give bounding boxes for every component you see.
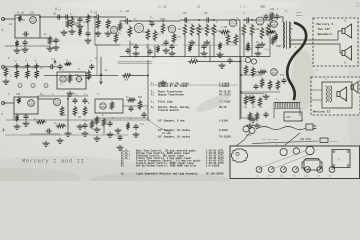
svg-text:100K: 100K (96, 21, 102, 24)
ground (47, 46, 53, 51)
tube V10 (271, 69, 278, 76)
capacitor C27 (142, 112, 146, 118)
resistor R25 (266, 24, 270, 36)
output transformer chassis (302, 159, 322, 171)
wire (5, 45, 50, 47)
svg-text:250K: 250K (193, 28, 199, 31)
ground (219, 63, 225, 68)
template circle (236, 152, 239, 159)
svg-text:OUTPUT: OUTPUT (330, 140, 339, 143)
wire (241, 117, 250, 119)
svg-text:Pilot Lamp: Pilot Lamp (158, 101, 173, 104)
wire (123, 105, 148, 107)
resistor R63 (156, 45, 160, 53)
wire (130, 20, 150, 22)
svg-text:250K: 250K (20, 67, 26, 70)
svg-text:V₄ₐ: V₄ₐ (55, 8, 61, 12)
control knob BAS5 (304, 167, 310, 178)
LDR box (284, 112, 302, 121)
svg-text:S-1394: S-1394 (219, 120, 228, 123)
resistor R15 (190, 24, 194, 36)
parts list R rows (121, 149, 224, 175)
plug (306, 124, 316, 130)
wire (132, 75, 148, 77)
wire (299, 108, 301, 116)
resistor R41 (110, 101, 114, 110)
svg-text:6BQ5: 6BQ5 (260, 6, 266, 9)
resistor R14 (178, 24, 187, 36)
svg-text:.02: .02 (8, 23, 13, 26)
ground (77, 24, 83, 29)
label 3.3M (221, 26, 228, 29)
svg-text:10" Speaker, 15 inches: 10" Speaker, 15 inches (158, 136, 191, 139)
ground (22, 47, 28, 52)
tube V3 (229, 17, 239, 27)
capacitor C20 (58, 64, 62, 70)
capacitor C22 (228, 58, 232, 64)
svg-text:SW-78: SW-78 (219, 106, 227, 109)
ground (263, 94, 269, 99)
resistor R22 (242, 24, 246, 36)
capacitor C28 (83, 123, 87, 129)
svg-text:100K: 100K (126, 31, 132, 34)
wire (180, 19, 183, 21)
capacitor C30 (46, 129, 52, 133)
capacitor C14 (245, 18, 251, 22)
svg-text:R₁₄: R₁₄ (186, 21, 191, 24)
tube socket V2 top (280, 145, 287, 156)
long vertical wire (147, 60, 149, 120)
svg-text:3.3M: 3.3M (221, 26, 228, 29)
wire (87, 24, 89, 30)
resistor R40 (83, 106, 87, 116)
wire (311, 99, 322, 101)
svg-text:22K: 22K (30, 12, 35, 15)
power transformer chassis (332, 150, 350, 168)
enclosure Mercury II (311, 77, 360, 115)
tube socket V1 top (293, 148, 299, 154)
svg-text:R₁₉: R₁₉ (224, 34, 229, 37)
capacitor C19 (49, 65, 55, 69)
resistor R31 (68, 74, 72, 83)
capacitor C17 (25, 64, 29, 70)
label C12 (182, 12, 187, 15)
node B (71, 16, 73, 18)
wire (150, 20, 180, 22)
svg-text:C₁₀: C₁₀ (146, 46, 151, 49)
resistor R64 (188, 44, 192, 52)
label 6BQ5 (276, 143, 278, 146)
long vertical (240, 57, 242, 118)
capacitor C6 (93, 11, 101, 19)
wire (120, 119, 150, 121)
supply arrow (51, 58, 56, 65)
ground (94, 136, 100, 141)
wire pair (118, 61, 152, 63)
resistor R70 (244, 95, 248, 105)
wire (269, 12, 271, 56)
capacitor C15 (246, 46, 250, 52)
ground (85, 38, 91, 43)
oscillator box (57, 72, 86, 89)
resistor R12 (161, 23, 165, 34)
wire (95, 44, 120, 46)
svg-text:1500: 1500 (230, 41, 236, 44)
wire (241, 74, 262, 76)
ground (169, 51, 175, 56)
ground (77, 124, 83, 129)
resistor R21 (234, 34, 238, 45)
svg-text:165: 165 (51, 58, 56, 61)
svg-text:270K: 270K (60, 114, 66, 117)
node A (39, 16, 41, 18)
harness wire2 (275, 155, 308, 168)
corner mark (356, 2, 359, 6)
svg-text:C₂₅: C₂₅ (84, 93, 89, 96)
resistor R17 (205, 24, 209, 36)
svg-text:GRN WIRE: GRN WIRE (300, 138, 312, 141)
capacitor C12 (183, 18, 189, 22)
svg-text:4.7K: 4.7K (191, 57, 197, 60)
svg-text:V₁: V₁ (316, 148, 319, 151)
ground (163, 48, 169, 53)
svg-text:TA-13155: TA-13155 (219, 136, 231, 139)
resistor R37 (15, 114, 19, 122)
svg-text:R₁₂: R₁₂ (167, 26, 171, 29)
label spkr cable (296, 11, 303, 17)
resistor R24 (260, 27, 264, 39)
label C7 (120, 10, 130, 13)
capacitor C1 (23, 32, 29, 36)
svg-text:Tremolo Switch: Tremolo Switch (158, 109, 179, 112)
resistor R27 (15, 70, 19, 79)
resistor R2 (15, 40, 19, 47)
resistor R51 (258, 70, 267, 74)
svg-text:.02: .02 (203, 12, 208, 15)
svg-text:V1B: V1B (16, 93, 21, 96)
diag wire (285, 133, 300, 145)
ground (259, 42, 265, 47)
tube V8 (53, 98, 60, 105)
ground (43, 141, 49, 146)
wire (273, 108, 275, 118)
wire pair2 (118, 62, 152, 64)
svg-text:1.5K: 1.5K (106, 21, 112, 24)
wire (13, 114, 15, 120)
capacitor C18 (35, 64, 39, 70)
control knob VOL3 (280, 167, 286, 178)
wire (311, 89, 322, 91)
capacitor C31 (118, 135, 122, 141)
tube V9 (100, 103, 107, 109)
can capacitor C32 (245, 57, 256, 64)
svg-text:C₁₅: C₁₅ (265, 48, 270, 51)
resistor R52 (260, 78, 264, 88)
wire (6, 102, 14, 104)
node 1 (18, 84, 22, 88)
wire (198, 36, 200, 57)
resistor R50 (251, 67, 255, 77)
inner box (322, 82, 352, 108)
vertical wire (67, 95, 69, 130)
svg-text:C-13059: C-13059 (219, 85, 230, 88)
svg-text:220K: 220K (254, 28, 260, 31)
capacitor C46 (264, 14, 268, 20)
speaker cable (287, 23, 306, 99)
capacitor C16 (15, 64, 19, 70)
control knob VOL1 (256, 167, 262, 178)
svg-text:1-9-13156: 1-9-13156 (206, 165, 220, 168)
svg-text:117V: 117V (246, 134, 252, 137)
svg-text:.05: .05 (93, 11, 98, 14)
wire (213, 36, 215, 57)
ground (105, 31, 111, 36)
ground (247, 123, 253, 128)
svg-text:R₄₅: R₄₅ (34, 118, 39, 121)
wire (211, 19, 214, 21)
resistor R56 (255, 112, 259, 121)
ground (14, 124, 20, 129)
harness wire (262, 151, 305, 167)
wire (280, 17, 283, 22)
svg-text:.02: .02 (196, 6, 201, 9)
wire bus (6, 66, 44, 68)
capacitor C26 (129, 106, 133, 112)
wire (313, 44, 342, 53)
long wire (239, 20, 241, 120)
ground (115, 128, 121, 133)
enclosure Mercury I (313, 18, 358, 66)
svg-text:Vₓ: Vₓ (237, 158, 239, 160)
capacitor C4 (54, 38, 58, 44)
ground (61, 30, 67, 35)
svg-text:R₄₂: R₄₂ (126, 96, 130, 99)
fuse F1 (243, 126, 255, 134)
resistor R45 (36, 120, 46, 124)
svg-text:A-1619: A-1619 (219, 129, 228, 132)
resistor R44 (95, 116, 99, 125)
speaker SP2 (342, 46, 352, 65)
resistor R35 (188, 57, 199, 63)
resistor R1 (18, 15, 25, 22)
capacitor C43 (170, 44, 174, 50)
resistor R54 (276, 80, 280, 90)
ext speaker line (252, 141, 318, 144)
resistor R61 (78, 28, 82, 36)
wire (95, 117, 148, 119)
resistor R33 (87, 70, 91, 80)
tube V7 (16, 99, 35, 106)
label switch (300, 119, 303, 122)
resistor R8 (114, 33, 118, 43)
tube V4 (256, 17, 264, 25)
svg-text:1500: 1500 (143, 31, 149, 34)
wire (103, 127, 105, 134)
svg-text:2: 2 (1, 113, 3, 116)
svg-text:Mercury I and II: Mercury I and II (22, 159, 85, 165)
resistor R3 (48, 36, 57, 45)
ground (217, 52, 223, 57)
resistor R26 (4, 67, 8, 77)
svg-text:R₃₆: R₃₆ (40, 93, 45, 96)
svg-text:C .1: C .1 (240, 6, 246, 9)
wire (94, 17, 96, 45)
ground (107, 132, 113, 137)
svg-text:CABLE: CABLE (296, 14, 303, 17)
svg-text:R₃₅: R₃₅ (152, 56, 157, 59)
resistor R5 (86, 14, 90, 24)
resistor R19 (220, 30, 230, 34)
top labels row (158, 6, 289, 14)
tube V1A (17, 17, 37, 24)
svg-text:C₃₂: C₃₂ (243, 60, 247, 63)
resistor R30 (64, 62, 72, 66)
resistor R7 (106, 19, 110, 29)
svg-text:10K: 10K (124, 79, 129, 82)
wire (211, 19, 240, 21)
resistor R34 (122, 74, 132, 82)
capacitor C8 (150, 21, 154, 27)
svg-text:R₄₆: R₄₆ (54, 122, 59, 125)
svg-text:T₁: T₁ (338, 158, 342, 161)
resistor R16 (197, 24, 201, 36)
wire (55, 66, 57, 68)
ground (23, 121, 29, 126)
svg-text:C₇ .02: C₇ .02 (120, 10, 130, 13)
wire (44, 66, 49, 68)
resistor R9 (128, 26, 132, 37)
svg-text:EXT SPK WIRE: EXT SPK WIRE (262, 138, 278, 141)
parts list header rows (151, 83, 231, 139)
svg-text:Light Dependent Resistor and L: Light Dependent Resistor and Lamp Assemb… (136, 173, 198, 176)
capacitor C10 (126, 48, 130, 54)
capacitor C29 (108, 121, 112, 127)
resistor R48 (102, 118, 106, 127)
svg-text:PC-100-89306: PC-100-89306 (206, 173, 224, 176)
resistor R67 (274, 33, 278, 41)
resistor R49 (244, 65, 248, 75)
resistor R20 (226, 34, 230, 45)
label C14 (242, 12, 245, 15)
title Mercury I and II (22, 159, 85, 165)
ground (53, 45, 59, 50)
power cord (258, 127, 306, 130)
svg-text:.02: .02 (52, 13, 57, 16)
resistor R28 (26, 70, 30, 79)
wire (86, 77, 91, 79)
wire (313, 31, 342, 40)
sub box (95, 99, 123, 113)
speaker SP4 (351, 82, 358, 94)
resistor R60 (66, 19, 70, 28)
svg-text:Output Transformer: Output Transformer (158, 94, 185, 97)
tube V2B (168, 25, 176, 33)
ground (250, 117, 256, 122)
label C1 C2 C3 (14, 60, 38, 63)
wire (243, 36, 245, 57)
label V5 (95, 57, 98, 60)
resistor R6 (96, 19, 100, 29)
wire (40, 37, 50, 39)
ground (201, 51, 207, 56)
ground (160, 80, 166, 85)
capacitor C45 (256, 44, 260, 50)
wire (96, 45, 98, 76)
wire (44, 75, 118, 77)
svg-text:470K: 470K (216, 30, 222, 33)
svg-text:5Y3: 5Y3 (280, 74, 285, 77)
wire (60, 16, 64, 18)
resistor R39 (73, 106, 77, 116)
speaker SP3 (337, 87, 347, 101)
capacitor C33 (254, 84, 258, 90)
wire (154, 45, 156, 57)
wire (209, 45, 211, 62)
stage box V1A (15, 15, 40, 38)
capacitor C21 (90, 64, 94, 70)
power transformer T1 (274, 102, 300, 108)
resistor R36 (17, 97, 21, 104)
svg-text:1: 1 (2, 28, 4, 32)
output stage parts (268, 12, 279, 45)
svg-text:47K: 47K (209, 28, 214, 31)
ground (3, 79, 9, 84)
capacitor C35 (264, 112, 268, 118)
ground (95, 31, 101, 36)
wire (251, 36, 253, 57)
capacitor C11 (148, 49, 152, 55)
svg-text:Speaker-8" PM, #1698: Speaker-8" PM, #1698 (158, 85, 188, 88)
svg-text:R₂₂: R₂₂ (246, 22, 250, 25)
wire (6, 119, 120, 121)
capacitor C44 (202, 44, 206, 50)
wire (150, 84, 238, 86)
svg-text:2.7K: 2.7K (175, 36, 181, 39)
wire (6, 18, 15, 20)
wire (236, 132, 250, 146)
ground (14, 48, 20, 53)
svg-text:R₁₁: R₁₁ (157, 33, 162, 36)
capacitor C40 (64, 15, 70, 19)
wire (241, 93, 264, 95)
resistor R65 (218, 42, 222, 50)
svg-text:R₃₀: R₃₀ (66, 60, 71, 63)
lower bus wire (5, 134, 128, 136)
svg-text:Two 10": Two 10" (318, 27, 331, 31)
svg-text:C₂₀: C₂₀ (60, 68, 65, 71)
label Mercury I (317, 22, 334, 36)
watermark smudge (194, 91, 233, 116)
tube V5 power (271, 21, 278, 28)
stage box V7 (14, 97, 38, 114)
resistor R72 (258, 97, 262, 107)
wire (241, 91, 280, 93)
resistor R46 (56, 124, 66, 128)
matching transformer (326, 86, 332, 102)
svg-text:470: 470 (270, 8, 275, 11)
capacitor C3 (23, 40, 27, 46)
svg-text:7xx: 7xx (140, 123, 145, 126)
wire (40, 16, 60, 18)
svg-text:10" Speaker, 8 ohm: 10" Speaker, 8 ohm (158, 120, 185, 123)
svg-text:V₂: V₂ (281, 145, 284, 148)
intensity pot R32 (75, 73, 83, 83)
wire (38, 96, 88, 99)
resistor R38 (60, 106, 64, 116)
resistor R23 (250, 24, 254, 36)
chassis outline (230, 146, 360, 179)
svg-text:Off-On-Volume Control, 500K-60: Off-On-Volume Control, 500K-600K ohm w/s… (136, 165, 197, 168)
